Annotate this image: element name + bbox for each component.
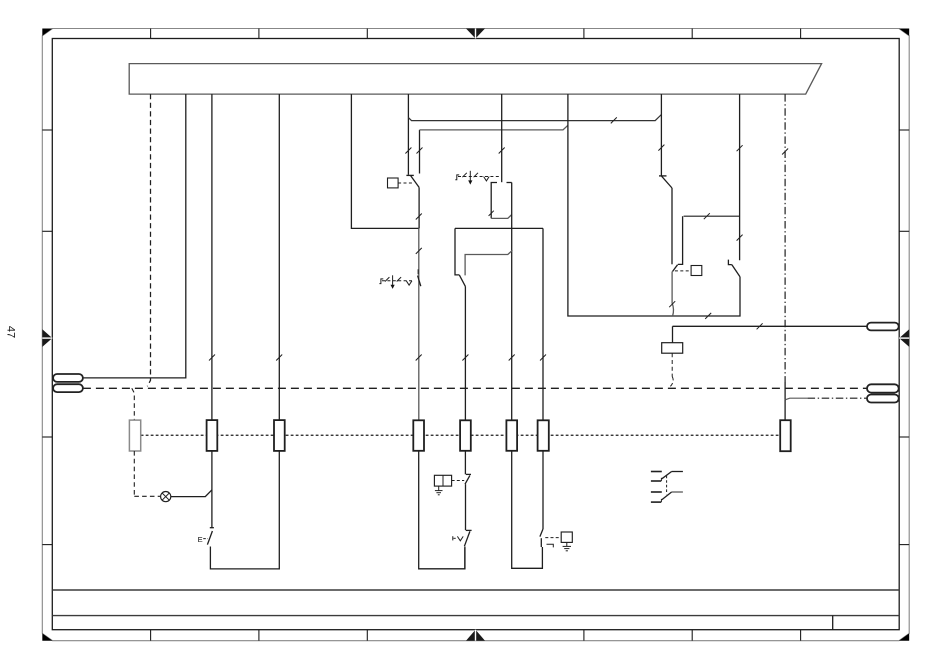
svg-text:E: E — [198, 535, 203, 544]
svg-text:47: 47 — [5, 326, 17, 338]
